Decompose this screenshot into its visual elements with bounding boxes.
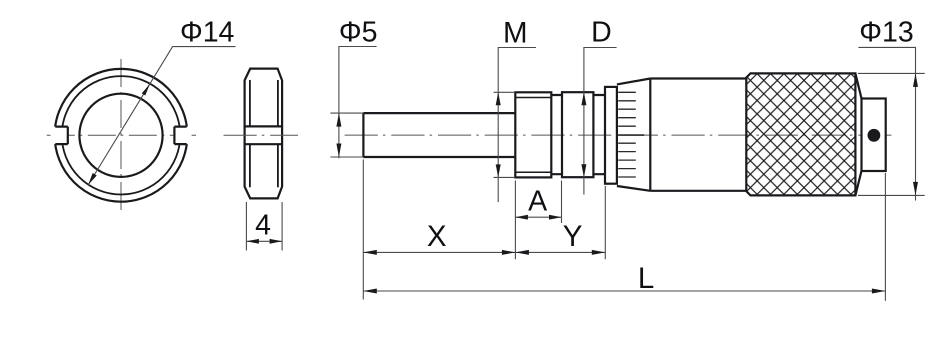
neck 1 — [551, 95, 562, 174]
thimble cone knurl ticks — [618, 92, 636, 177]
dimension M arrows — [496, 92, 501, 105]
end cap — [862, 99, 886, 172]
dimension A extension lines — [515, 181, 561, 260]
front view chamfer circle — [62, 76, 180, 194]
rear bevel — [855, 73, 861, 195]
thimble cone top edge — [617, 79, 650, 85]
svg-text:Y: Y — [563, 220, 583, 253]
dimension Y arrows — [515, 250, 529, 255]
dimension X arrows — [363, 250, 377, 255]
front view centerline vertical — [120, 59, 122, 210]
dimension L line — [363, 290, 885, 292]
front view centerline horizontal — [47, 134, 196, 136]
front view bore circle — [79, 94, 162, 177]
end cap extension line — [884, 173, 886, 301]
dimension L arrows — [363, 289, 377, 294]
dimension D arrows — [581, 92, 586, 105]
thimble cone center index line — [618, 134, 644, 136]
thimble cone bottom edge — [617, 186, 650, 191]
collar3 extension line — [604, 186, 606, 259]
dimension Phi14 arrow lower — [88, 173, 97, 185]
collar D — [562, 92, 593, 177]
svg-text:D: D — [591, 17, 612, 49]
svg-text:A: A — [528, 186, 547, 218]
slot cover right — [174, 127, 191, 145]
dimension Phi14 leader — [88, 47, 235, 185]
side view centerline — [224, 134, 299, 136]
dimension Phi13 leader — [858, 47, 915, 200]
dimension Phi5 leader — [339, 47, 377, 159]
dimension M extension lines — [494, 92, 516, 177]
left slot outline — [55, 127, 68, 145]
thread collar M — [515, 92, 551, 177]
side view slot lines — [245, 126, 283, 144]
dimension M leader — [498, 48, 536, 203]
main centerline — [345, 134, 895, 136]
spindle — [363, 113, 515, 157]
svg-text:L: L — [638, 262, 654, 295]
end cap dot — [868, 129, 881, 142]
svg-text:Φ14: Φ14 — [180, 17, 235, 49]
knurled grip — [746, 73, 855, 195]
dimension D leader — [584, 48, 617, 195]
dimension A arrows — [515, 215, 528, 220]
svg-text:M: M — [503, 17, 528, 50]
dimension Phi14 arrow upper — [142, 84, 150, 96]
neck 2 — [593, 95, 605, 174]
dimension Phi13 arrows — [913, 73, 918, 87]
thimble barrel — [650, 79, 746, 191]
side view chamfer edge left — [249, 80, 251, 187]
dimension Phi5 arrows — [336, 113, 341, 127]
svg-text:Φ13: Φ13 — [859, 16, 913, 48]
dimension 4 arrow left — [246, 239, 259, 244]
svg-text:Φ5: Φ5 — [339, 17, 378, 49]
dimension 4 line — [246, 240, 282, 242]
svg-text:X: X — [427, 220, 447, 253]
spindle edge extension lines — [330, 113, 363, 157]
front view outer circle — [55, 69, 188, 202]
dimension 4 arrow right — [270, 239, 283, 244]
dimension Phi13 extension lines — [858, 73, 925, 195]
collar 3 — [605, 87, 617, 184]
spindle tip extension line — [362, 160, 364, 300]
thread collar M chamfer lines — [515, 98, 551, 173]
svg-text:4: 4 — [255, 210, 271, 242]
dimension 4 extension lines — [246, 202, 282, 251]
side view chamfer edge right — [277, 80, 279, 187]
slot cover left — [51, 127, 68, 145]
dimension A line — [515, 216, 561, 218]
side view body — [245, 69, 283, 199]
dimension X Y shared line — [363, 251, 605, 253]
right slot outline — [174, 127, 186, 145]
